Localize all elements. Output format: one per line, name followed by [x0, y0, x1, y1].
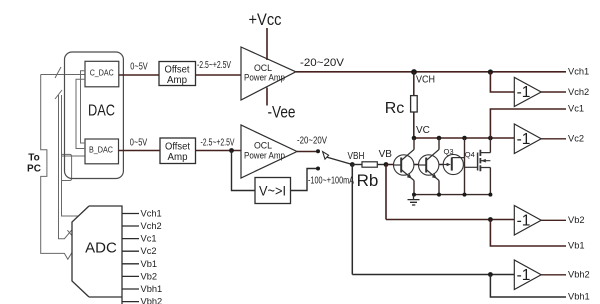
wire VBH rail	[352, 274, 514, 276]
Q4 source riser	[489, 168, 491, 195]
svg-text:Vch1: Vch1	[141, 209, 162, 219]
DAC internal bus wire b	[76, 79, 85, 148]
svg-text:Vbh1: Vbh1	[141, 284, 163, 294]
svg-text:Vb2: Vb2	[568, 215, 585, 225]
svg-text:-100~+100mA: -100~+100mA	[308, 176, 354, 187]
svg-text:-1: -1	[517, 131, 531, 148]
switch blade	[327, 157, 352, 164]
svg-text:Amp: Amp	[168, 151, 188, 163]
svg-text:Vb2: Vb2	[141, 271, 158, 281]
wire Vb1 branch	[490, 220, 566, 247]
svg-text:C_DAC: C_DAC	[90, 68, 114, 78]
wire VB drop	[385, 165, 387, 220]
junction dots on ground rail	[412, 193, 416, 197]
wire C_DAC to Offset Amp 1	[119, 74, 159, 76]
wire VBH drop	[351, 165, 353, 275]
svg-text:Vb1: Vb1	[568, 241, 585, 251]
svg-text:-1: -1	[517, 84, 531, 101]
bus wire L2 (middle vertical to ADC)	[59, 95, 72, 239]
T1 collector riser	[413, 138, 415, 150]
svg-text:Vc2: Vc2	[568, 133, 584, 143]
svg-text:-1: -1	[517, 213, 531, 230]
svg-text:OCL: OCL	[254, 63, 272, 73]
svg-text:Vc2: Vc2	[141, 246, 157, 256]
bus wire L3 (PC to B_DAC with jog)	[62, 95, 86, 216]
Q4 drain riser	[489, 138, 491, 153]
bus slash mark on L2	[55, 90, 62, 99]
wire VB rail	[386, 219, 514, 221]
op-amp OCL Power Amp 1	[241, 47, 296, 100]
svg-text:PC: PC	[27, 164, 41, 175]
node VBH	[350, 162, 355, 167]
svg-text:VCH: VCH	[416, 75, 435, 86]
svg-text:VB: VB	[379, 149, 393, 160]
wire VC rail	[414, 137, 515, 139]
node VB	[384, 162, 389, 167]
switch terminal node (current)	[316, 167, 320, 171]
svg-text:Q3: Q3	[444, 147, 454, 156]
svg-text:Rb: Rb	[357, 171, 379, 190]
wire U1 output	[541, 91, 566, 93]
T2 emitter riser	[438, 181, 440, 195]
B_DAC box	[85, 139, 119, 164]
Q3 collector/emitter riser	[464, 138, 466, 195]
resistor Rb	[362, 162, 377, 167]
node feedback tap	[229, 148, 234, 153]
inverter U2 (-1)	[514, 124, 541, 154]
svg-text:Vc1: Vc1	[141, 234, 157, 244]
transistor T2	[419, 155, 439, 175]
wire emitter/ground rail	[414, 194, 490, 196]
svg-text:OCL: OCL	[254, 141, 272, 151]
node Vb1 branch	[488, 217, 493, 222]
svg-text:VC: VC	[416, 125, 430, 136]
ADC input stubs	[122, 214, 139, 302]
node Vbh1 branch	[488, 272, 493, 277]
transistor Q3	[443, 154, 463, 174]
svg-text:-Vee: -Vee	[268, 103, 296, 122]
svg-text:Vch2: Vch2	[568, 87, 589, 97]
wire Vbh1 branch	[490, 275, 566, 298]
svg-text:DAC: DAC	[88, 103, 115, 120]
-Vee supply wire	[266, 88, 268, 106]
wire OCL2 output	[297, 151, 318, 153]
wire Rb to VB	[377, 164, 386, 166]
svg-text:0~5V: 0~5V	[130, 137, 148, 149]
+Vcc supply wire	[266, 28, 268, 60]
svg-text:ADC: ADC	[85, 240, 117, 257]
wire VCH to Rc	[413, 72, 415, 96]
switch arrowhead	[323, 152, 329, 160]
wire Vc1 branch	[490, 109, 566, 138]
inverter U1 (-1)	[514, 77, 541, 106]
wire Rc to VC	[413, 112, 415, 138]
svg-text:Power Amp: Power Amp	[244, 150, 285, 160]
svg-text:-2.5~+2.5V: -2.5~+2.5V	[197, 60, 231, 71]
svg-text:V~>I: V~>I	[259, 184, 286, 199]
svg-text:+Vcc: +Vcc	[249, 10, 282, 29]
bus wire L1 (PC to C_DAC)	[41, 75, 85, 260]
svg-text:-1: -1	[517, 267, 531, 284]
svg-text:-20~20V: -20~20V	[297, 135, 327, 146]
wire feedback to V~>I	[232, 151, 256, 191]
svg-text:VBH: VBH	[348, 151, 365, 162]
svg-text:Q4: Q4	[465, 150, 475, 159]
resistor Rc	[411, 96, 418, 112]
switch terminal node (voltage)	[316, 149, 320, 153]
Offset Amp 2 box	[160, 138, 196, 164]
wire base rail VB	[386, 164, 451, 166]
transistor T1	[394, 155, 414, 175]
svg-text:Vbh2: Vbh2	[568, 269, 590, 279]
wire U4 output	[541, 274, 566, 276]
wire Offset Amp 1 to OCL 1	[196, 74, 242, 76]
svg-text:Vch1: Vch1	[568, 67, 589, 77]
wire V~>I output to switch	[291, 169, 319, 191]
wire Vch2 branch	[490, 72, 514, 92]
T1 emitter riser	[413, 181, 415, 195]
node Vch2 branch	[488, 69, 493, 74]
ADC block	[72, 206, 122, 304]
svg-text:-20~20V: -20~20V	[300, 57, 345, 69]
svg-text:0~5V: 0~5V	[130, 61, 148, 73]
svg-text:Vc1: Vc1	[568, 104, 584, 114]
wire VBH to Rb	[352, 164, 362, 166]
svg-text:Vb1: Vb1	[141, 259, 158, 269]
wire B_DAC to Offset Amp 2	[119, 150, 161, 152]
bus slash mark on L1	[55, 67, 61, 78]
svg-text:Power Amp: Power Amp	[244, 73, 285, 83]
svg-text:Rc: Rc	[385, 100, 405, 117]
C_DAC box	[85, 61, 119, 87]
Offset Amp 1 box	[159, 62, 196, 86]
wire OCL1 output rail VCH	[296, 71, 566, 73]
svg-text:Vbh2: Vbh2	[141, 297, 163, 304]
wire U3 output	[541, 219, 566, 221]
junction dots on VC rail	[412, 136, 417, 141]
converter V~>I box	[255, 178, 291, 204]
svg-text:Amp: Amp	[167, 74, 187, 86]
svg-text:To: To	[28, 153, 39, 164]
wire U2 output	[541, 138, 566, 140]
T2 collector riser	[438, 138, 440, 150]
inverter U4 (-1)	[514, 260, 541, 290]
svg-text:Vbh1: Vbh1	[568, 292, 590, 302]
svg-text:B_DAC: B_DAC	[89, 145, 113, 155]
svg-text:Vch2: Vch2	[141, 221, 162, 231]
DAC outer box	[65, 52, 124, 179]
inverter U3 (-1)	[514, 206, 541, 236]
DAC internal bus wire a	[81, 71, 86, 143]
svg-text:-2.5~+2.5V: -2.5~+2.5V	[201, 137, 235, 148]
op-amp OCL Power Amp 2	[241, 125, 297, 178]
ground	[408, 195, 420, 205]
wire Offset Amp 2 to OCL 2	[196, 150, 242, 152]
node VCH	[411, 69, 417, 75]
wire Q3 emitter to Q4 gate	[465, 166, 478, 168]
